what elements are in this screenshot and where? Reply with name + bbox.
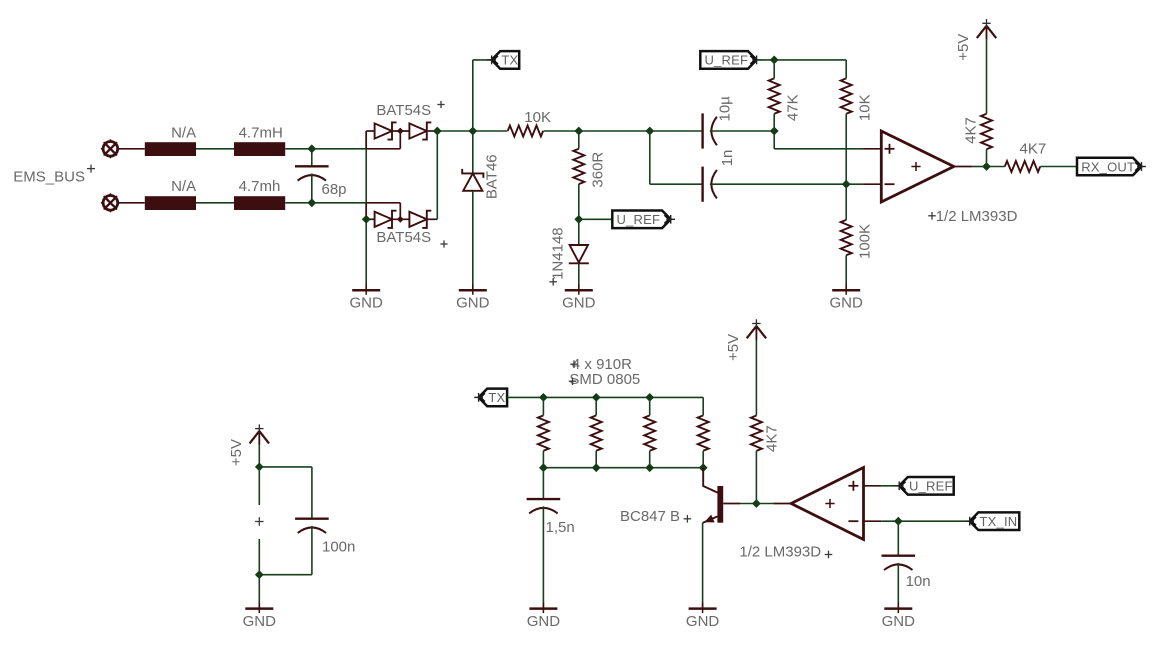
node	[307, 198, 316, 207]
resistor R3 47K	[769, 78, 780, 113]
svg-text:1N4148: 1N4148	[550, 227, 567, 280]
ground	[884, 607, 912, 610]
wire	[472, 191, 474, 290]
svg-text:10K: 10K	[524, 109, 551, 126]
resistor R10 910R	[644, 415, 655, 450]
tag RX_OUT	[1077, 158, 1142, 176]
svg-text:+5V: +5V	[955, 34, 972, 61]
node	[645, 393, 654, 402]
wire	[258, 445, 260, 467]
svg-text:TX: TX	[488, 390, 505, 405]
op-amp U2 1/2 LM393D	[791, 468, 863, 540]
node cross	[255, 521, 264, 523]
resistor R6 4K7	[981, 114, 992, 149]
wire	[864, 520, 882, 522]
ground	[459, 289, 487, 292]
wire	[881, 520, 898, 522]
wire	[311, 467, 313, 519]
wire	[649, 451, 651, 468]
wire	[311, 149, 313, 167]
wire	[542, 397, 544, 415]
wire	[773, 503, 791, 505]
power +5V	[250, 431, 260, 443]
wire	[773, 114, 775, 131]
svg-text:360R: 360R	[590, 152, 607, 188]
wire	[366, 148, 400, 150]
svg-text:SMD 0805: SMD 0805	[569, 371, 640, 388]
svg-text:GND: GND	[882, 613, 916, 630]
label minus	[885, 183, 895, 185]
wire base	[723, 503, 740, 505]
wire emitter	[703, 516, 718, 523]
wire	[649, 131, 651, 184]
wire	[365, 131, 367, 149]
svg-text:GND: GND	[456, 295, 490, 312]
wire	[845, 184, 847, 220]
wire	[259, 574, 312, 576]
wire	[285, 202, 312, 204]
svg-text:TX: TX	[501, 53, 518, 68]
resistor R12 4K7	[751, 416, 762, 451]
wire	[196, 202, 234, 204]
ground	[689, 607, 717, 610]
svg-text:BC847 B: BC847 B	[620, 508, 680, 525]
resistor R5 100K	[841, 220, 852, 255]
tag U_REF	[899, 477, 954, 495]
node	[574, 215, 583, 224]
capacitor C3 1n	[701, 167, 703, 202]
svg-text:U_REF: U_REF	[909, 479, 953, 494]
wire	[542, 506, 544, 608]
node	[433, 127, 442, 136]
wire	[472, 131, 474, 173]
capacitor C1 68p	[295, 165, 329, 167]
wire	[650, 130, 703, 132]
wire	[710, 183, 846, 185]
svg-text:+5V: +5V	[228, 439, 245, 466]
wire	[366, 218, 374, 220]
wire	[542, 451, 544, 468]
ground	[352, 289, 380, 292]
svg-text:10n: 10n	[906, 573, 931, 590]
capacitor C2 10u	[701, 113, 703, 148]
node	[397, 128, 404, 135]
diode D4 1N4148	[570, 245, 588, 262]
wire	[428, 218, 438, 220]
wire	[473, 59, 492, 61]
wire	[898, 520, 969, 522]
node	[397, 216, 404, 223]
svg-text:BAT54S: BAT54S	[376, 102, 431, 119]
svg-text:4.7mH: 4.7mH	[239, 124, 283, 141]
inductor L1 N/A	[145, 142, 196, 156]
svg-text:1,5n: 1,5n	[546, 519, 575, 536]
wire	[258, 467, 260, 505]
wire	[543, 467, 703, 469]
wire	[595, 397, 597, 415]
power +5V	[747, 326, 757, 338]
node	[468, 127, 477, 136]
wire	[740, 503, 756, 505]
wire	[864, 485, 882, 487]
wire	[702, 451, 704, 468]
wire	[285, 148, 312, 150]
svg-text:+5V: +5V	[725, 334, 742, 361]
svg-text:10K: 10K	[857, 94, 874, 121]
svg-text:1/2 LM393D: 1/2 LM393D	[739, 544, 821, 561]
wire	[595, 451, 597, 468]
wire	[864, 148, 882, 150]
wire	[774, 148, 863, 150]
wire	[845, 114, 847, 184]
node	[362, 215, 371, 224]
svg-text:N/A: N/A	[171, 124, 196, 141]
node	[645, 127, 654, 136]
wire	[1040, 166, 1077, 168]
wire	[755, 340, 757, 416]
svg-text:68p: 68p	[322, 181, 347, 198]
diode D2 BAT54S a	[375, 212, 392, 227]
wire	[543, 130, 578, 132]
tag TX_IN	[970, 512, 1020, 530]
wire	[579, 218, 613, 220]
label minus	[848, 520, 858, 522]
svg-text:TX_IN: TX_IN	[980, 514, 1018, 529]
wire	[472, 60, 474, 131]
connector X1 pin 1	[103, 142, 118, 157]
wire	[399, 203, 401, 220]
wire	[578, 184, 580, 219]
svg-text:GND: GND	[562, 295, 596, 312]
tag TX	[492, 51, 520, 69]
diode D2 BAT54S b	[409, 212, 426, 227]
node	[539, 463, 548, 472]
resistor R11 910R	[698, 415, 709, 450]
wire	[312, 148, 366, 150]
svg-text:1/2 LM393D: 1/2 LM393D	[936, 208, 1018, 225]
wire	[845, 255, 847, 290]
wire	[473, 130, 508, 132]
wire	[196, 148, 234, 150]
tag U_REF	[612, 211, 670, 229]
node	[592, 393, 601, 402]
inductor L4 4.7mh	[234, 196, 285, 210]
wire	[864, 183, 882, 185]
wire	[393, 130, 410, 132]
svg-text:U_REF: U_REF	[617, 212, 661, 227]
wire	[118, 202, 145, 204]
diode D1 BAT54S a	[375, 123, 392, 138]
svg-text:4K7: 4K7	[963, 117, 980, 144]
node	[645, 463, 654, 472]
node	[255, 463, 264, 472]
wire	[845, 60, 847, 79]
node	[842, 180, 851, 189]
diode D3 BAT46	[463, 173, 482, 190]
svg-text:100n: 100n	[322, 539, 355, 556]
label plus	[848, 485, 858, 487]
wire	[773, 60, 775, 79]
wire	[258, 575, 260, 609]
wire	[897, 521, 899, 556]
ground	[832, 289, 860, 292]
ground	[565, 289, 593, 292]
wire	[365, 203, 367, 220]
tag U_REF	[700, 51, 756, 69]
resistor R9 910R	[591, 415, 602, 450]
wire	[757, 59, 775, 61]
wire	[774, 59, 846, 61]
ground	[245, 607, 273, 610]
node	[894, 517, 903, 526]
svg-text:GND: GND	[350, 295, 384, 312]
wire	[543, 396, 703, 398]
label center plus	[911, 166, 920, 168]
svg-text:U_REF: U_REF	[705, 53, 749, 68]
resistor R8 910R	[538, 415, 549, 450]
svg-text:BAT46: BAT46	[484, 154, 501, 199]
power +5V	[977, 26, 987, 38]
inductor L3 N/A	[145, 196, 196, 210]
svg-text:GND: GND	[527, 613, 561, 630]
node	[255, 570, 264, 579]
wire	[312, 202, 366, 204]
wire	[579, 130, 650, 132]
wire	[702, 523, 704, 609]
capacitor C4 100n	[295, 518, 329, 520]
node	[699, 463, 708, 472]
svg-text:10µ: 10µ	[717, 96, 734, 122]
svg-text:4K7: 4K7	[1020, 141, 1047, 158]
wire	[881, 485, 899, 487]
capacitor C6 10n	[882, 555, 916, 557]
svg-text:GND: GND	[686, 613, 720, 630]
wire	[437, 130, 473, 132]
svg-text:N/A: N/A	[171, 178, 196, 195]
node	[307, 144, 316, 153]
label center plus	[825, 503, 834, 505]
node	[770, 56, 779, 65]
wire	[311, 526, 313, 575]
wire	[507, 396, 543, 398]
wire	[710, 130, 774, 132]
wire	[366, 202, 400, 204]
svg-text:47K: 47K	[785, 94, 802, 121]
wire	[972, 166, 987, 168]
wire	[393, 218, 410, 220]
resistor R2 360R	[573, 149, 584, 184]
node	[982, 162, 991, 171]
svg-text:100K: 100K	[857, 224, 874, 259]
diode D1 BAT54S b	[409, 123, 426, 138]
op-amp U1 1/2 LM393D	[881, 131, 954, 202]
wire	[987, 166, 1005, 168]
svg-text:RX_OUT: RX_OUT	[1081, 159, 1135, 174]
wire	[986, 40, 988, 114]
wire	[773, 131, 775, 149]
wire	[986, 149, 988, 166]
ground	[529, 607, 557, 610]
wire	[578, 219, 580, 245]
wire	[366, 130, 374, 132]
wire	[897, 563, 899, 609]
wire	[650, 183, 703, 185]
wire	[846, 183, 863, 185]
svg-text:4.7mh: 4.7mh	[239, 178, 281, 195]
node	[574, 127, 583, 136]
wire	[756, 503, 773, 505]
wire	[755, 451, 757, 504]
wire	[578, 131, 580, 149]
wire	[259, 466, 312, 468]
wire	[954, 166, 972, 168]
svg-text:4K7: 4K7	[764, 425, 781, 452]
node	[592, 463, 601, 472]
capacitor C5 1,5n	[527, 498, 561, 500]
label plus	[885, 148, 895, 150]
svg-text:EMS_BUS: EMS_BUS	[13, 169, 85, 186]
wire	[365, 131, 367, 290]
svg-text:GND: GND	[243, 613, 277, 630]
wire	[311, 174, 313, 203]
transistor Q1 BC847	[717, 486, 723, 523]
connector X1 pin 2	[103, 196, 118, 211]
wire	[649, 397, 651, 415]
svg-text:1n: 1n	[719, 150, 736, 167]
wire	[258, 539, 260, 575]
node	[539, 393, 548, 402]
wire	[578, 263, 580, 290]
resistor R4 10K	[841, 78, 852, 113]
resistor R7 4K7	[1005, 161, 1040, 172]
wire	[702, 397, 704, 415]
wire	[399, 131, 401, 149]
wire	[436, 131, 438, 219]
inductor L2 4.7mH	[234, 142, 285, 156]
node	[770, 127, 779, 136]
svg-text:GND: GND	[830, 295, 864, 312]
wire	[118, 148, 145, 150]
node	[752, 499, 761, 508]
wire	[542, 468, 544, 499]
svg-text:BAT54S: BAT54S	[376, 229, 431, 246]
tag TX	[479, 389, 508, 407]
wire collector	[703, 468, 717, 493]
wire	[428, 130, 438, 132]
resistor R1 10K	[508, 126, 543, 137]
